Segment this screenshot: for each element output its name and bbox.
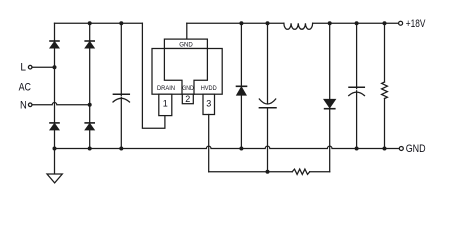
wire top rail after inductor to +18V: [313, 22, 399, 24]
wire lower rail to diode leg: [310, 171, 330, 173]
IC pin 1 box: [159, 94, 172, 115]
svg-text:2: 2: [185, 94, 190, 104]
diode bridge top-left: [50, 41, 59, 48]
svg-text:+18V: +18V: [406, 18, 426, 30]
svg-text:N: N: [20, 99, 27, 111]
svg-text:L: L: [20, 62, 26, 74]
wire main bottom rail with hops: [55, 146, 400, 148]
diode D3 feedback: [324, 23, 335, 172]
capacitor C3: [349, 23, 365, 148]
wire top-left rail from bridge to drain riser: [55, 22, 143, 24]
diode bridge bottom-right: [85, 123, 94, 130]
node C1 top: [119, 21, 123, 25]
wire L to bridge: [32, 66, 55, 68]
node R1 top: [383, 21, 387, 25]
diode D2 freewheeling: [237, 23, 247, 148]
IC U1 package body: [152, 39, 222, 94]
diode bridge bottom-left: [50, 123, 59, 130]
wire top rail right segment: [187, 22, 284, 24]
node C2 top: [266, 21, 270, 25]
capacitor C2 output electrolytic: [259, 23, 276, 172]
node D2 top: [239, 21, 243, 25]
node D3 top: [328, 21, 332, 25]
IC pin 2 box: [182, 94, 193, 104]
wire lower feedback rail: [209, 171, 293, 173]
node C3 bottom: [355, 146, 359, 150]
node N junction: [88, 103, 92, 107]
node C3 top: [355, 21, 359, 25]
wire N to bridge with hop over left leg: [32, 103, 90, 105]
diode bridge top-right: [85, 41, 94, 48]
node C1 bottom: [119, 146, 123, 150]
wire bridge right vertical: [89, 23, 91, 148]
wire pin 3 feedback drop: [208, 115, 210, 172]
terminal +18V: [399, 21, 403, 25]
svg-text:GND: GND: [406, 143, 426, 155]
ground: [47, 174, 62, 183]
node L junction: [53, 65, 57, 69]
svg-text:AC: AC: [19, 82, 31, 94]
node R1 bottom: [383, 146, 387, 150]
inductor L1: [284, 23, 313, 29]
terminal GND: [399, 146, 403, 150]
svg-text:GND: GND: [179, 41, 193, 48]
svg-text:DRAIN: DRAIN: [157, 85, 175, 92]
terminal L: [28, 65, 32, 69]
wire drain riser down-jog to pin 1: [142, 23, 165, 128]
svg-text:GND: GND: [182, 85, 194, 92]
resistor R2 feedback: [292, 169, 310, 174]
node D2 bottom: [239, 146, 243, 150]
terminal N: [28, 103, 32, 107]
node bridge right top: [88, 21, 92, 25]
capacitor C1 input bulk: [113, 23, 130, 148]
svg-text:HVDD: HVDD: [201, 85, 217, 92]
svg-text:3: 3: [206, 99, 211, 109]
node bridge right bottom: [88, 146, 92, 150]
wire bridge left vertical: [54, 23, 56, 173]
IC pin 3 box: [203, 94, 215, 114]
node C2 lower rail: [266, 170, 270, 174]
resistor R1 load: [382, 23, 388, 148]
node bridge left bottom: [53, 146, 57, 150]
svg-text:1: 1: [163, 99, 168, 109]
op IC tab riser wire: [186, 23, 188, 39]
